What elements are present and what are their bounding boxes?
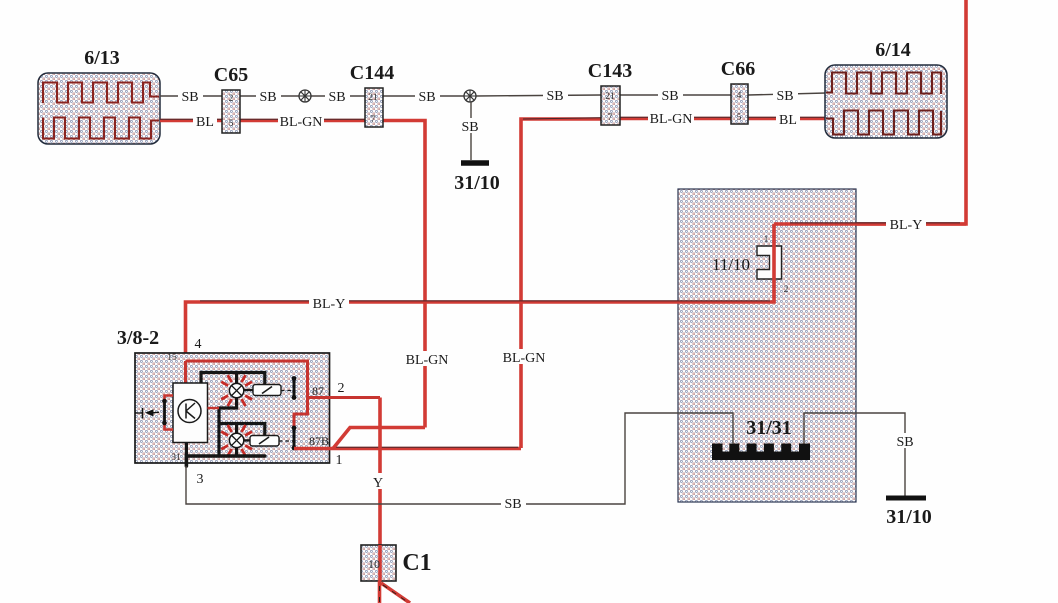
- wire SB C144 to splice2: [383, 95, 464, 97]
- svg-text:BL-GN: BL-GN: [406, 353, 449, 368]
- black link over lamp 1: [201, 373, 265, 385]
- svg-text:11/10: 11/10: [712, 255, 750, 274]
- wire SB splice2 down to ground: [470, 102, 472, 160]
- wire red to contact 87b branch: [294, 398, 308, 429]
- wire SB C143 to C66: [620, 94, 731, 96]
- label SB: [773, 87, 798, 102]
- timer block bottom stub: [185, 443, 188, 457]
- ground 31/10 top: [461, 160, 489, 166]
- svg-text:3: 3: [197, 472, 204, 487]
- wire BL-GN C65 to C144: [240, 119, 365, 123]
- timer symbol circle: [178, 400, 201, 423]
- wire comb to right ground: [804, 413, 905, 496]
- 6/13 heating element top loop: [43, 83, 159, 104]
- dashed link E2 to contact 87B: [279, 440, 293, 442]
- svg-text:C143: C143: [588, 60, 632, 82]
- svg-text:4: 4: [737, 91, 742, 101]
- wire SB C66 to 6/14: [748, 93, 826, 95]
- wire Y from pin 2 down to C1: [378, 398, 382, 546]
- label SB: [325, 88, 350, 103]
- svg-text:3/8-2: 3/8-2: [117, 327, 159, 349]
- svg-text:2: 2: [338, 381, 345, 396]
- wire SB pin 3 to module box: [186, 413, 678, 504]
- wire BL-Y feed from top right: [774, 0, 966, 224]
- svg-text:87: 87: [312, 384, 324, 398]
- contact 87: [292, 376, 297, 400]
- svg-text:SB: SB: [418, 90, 435, 105]
- contact 87B: [292, 426, 297, 451]
- label BL-GN: [648, 110, 694, 125]
- dashed link E1 to contact 87: [281, 390, 293, 392]
- black link over lamp 2: [219, 424, 265, 436]
- indicator lamp L2: [221, 425, 252, 456]
- wire BL 6/13 to C65: [160, 119, 222, 123]
- svg-text:BL-GN: BL-GN: [650, 112, 693, 127]
- svg-text:Y: Y: [373, 476, 383, 491]
- connector C144: [365, 88, 383, 127]
- splice joint symbol 1: [299, 90, 311, 102]
- svg-text:6/13: 6/13: [84, 47, 120, 69]
- svg-text:87B: 87B: [309, 434, 329, 448]
- svg-text:21: 21: [605, 92, 615, 102]
- svg-text:C66: C66: [721, 58, 755, 80]
- wire pin 4 down to timer block: [184, 361, 187, 383]
- svg-text:10: 10: [368, 557, 380, 571]
- wire BL-Y inside box to pin 1 of 11/10: [774, 222, 966, 226]
- indicator lamp L1: [221, 375, 252, 406]
- red link timer to lamp bus: [208, 407, 220, 409]
- label SB: [458, 118, 483, 133]
- label BL-GN: [278, 113, 324, 128]
- label SB: [893, 433, 918, 448]
- connector C66: [731, 84, 748, 124]
- label Y: [371, 473, 386, 489]
- label SB: [543, 87, 568, 102]
- heated seat element 6/13: [38, 73, 160, 144]
- relay unit 3/8-2 box: [135, 353, 330, 463]
- label SB: [256, 88, 281, 103]
- svg-text:31: 31: [171, 453, 181, 463]
- wire through 11/10: [772, 246, 776, 279]
- svg-text:C144: C144: [350, 62, 394, 84]
- svg-text:SB: SB: [661, 89, 678, 104]
- svg-text:2: 2: [229, 94, 234, 104]
- label SB: [501, 495, 526, 510]
- wire SB C65 to splice: [240, 95, 299, 97]
- svg-text:SB: SB: [504, 497, 521, 512]
- label BL: [776, 111, 800, 126]
- wire BL-GN C143 to C66: [620, 117, 731, 121]
- svg-text:6/14: 6/14: [875, 39, 911, 61]
- svg-text:BL-Y: BL-Y: [890, 218, 923, 233]
- svg-text:1: 1: [336, 453, 343, 468]
- svg-text:7: 7: [608, 113, 613, 123]
- svg-text:4: 4: [195, 337, 202, 352]
- wire BL-Y pin 1 of 11/10 up: [772, 224, 776, 246]
- svg-text:31/10: 31/10: [886, 506, 932, 528]
- svg-text:5: 5: [737, 113, 742, 123]
- svg-text:SB: SB: [546, 89, 563, 104]
- svg-text:BL-GN: BL-GN: [503, 351, 546, 366]
- wire Y below C1: [378, 581, 382, 603]
- wire branch diagonal below C1: [381, 583, 410, 603]
- 6/14 heating element top loop: [826, 73, 941, 95]
- label BL-GN vertical 1: [404, 351, 450, 366]
- svg-text:SB: SB: [328, 90, 345, 105]
- connector C143: [601, 86, 620, 125]
- svg-text:C1: C1: [402, 550, 431, 576]
- svg-text:31/31: 31/31: [746, 417, 792, 439]
- wire SB into box to comb: [678, 413, 733, 444]
- svg-text:7: 7: [371, 115, 376, 125]
- svg-text:21: 21: [368, 93, 378, 103]
- label BL-Y: [309, 295, 349, 310]
- label SB: [658, 87, 683, 102]
- connector bracket 11/10: [757, 246, 782, 279]
- svg-text:31/10: 31/10: [454, 172, 500, 194]
- label SB: [415, 88, 440, 103]
- ground rail 31/31 comb: [712, 444, 810, 461]
- manual actuator arrow symbol: [135, 408, 159, 419]
- splice joint symbol 2: [464, 90, 476, 102]
- wire BL-Y pin 2 of 11/10 down to relay pin 4 run: [186, 279, 775, 361]
- left bypass contact of timer: [165, 396, 174, 401]
- label SB: [178, 88, 203, 103]
- svg-text:1: 1: [764, 235, 769, 245]
- lamp L2 lower stub: [235, 448, 238, 456]
- svg-text:BL: BL: [779, 113, 797, 128]
- svg-text:BL: BL: [196, 115, 214, 130]
- wire BL-GN corner to C143: [521, 119, 601, 448]
- label BL-Y: [886, 216, 926, 231]
- svg-text:SB: SB: [461, 120, 478, 135]
- svg-text:5: 5: [229, 119, 234, 129]
- lamp L1 lower wire to rail: [219, 398, 237, 456]
- thermal element E1: [253, 385, 281, 396]
- connector C65: [222, 90, 240, 133]
- svg-text:BL-Y: BL-Y: [313, 297, 346, 312]
- control module box (11/10 and 31/31): [678, 189, 856, 502]
- wire SB splice to C144: [311, 95, 365, 97]
- 6/13 heating element bottom loop: [43, 118, 159, 139]
- wire SB 6/13 to C65: [160, 95, 222, 97]
- wire BL C66 to 6/14: [748, 117, 826, 121]
- svg-text:2: 2: [784, 285, 789, 295]
- svg-text:BL-GN: BL-GN: [280, 115, 323, 130]
- thermal element E2: [250, 436, 279, 447]
- svg-text:C65: C65: [214, 64, 248, 86]
- link lamp2 to E2: [244, 439, 250, 441]
- 6/14 heating element bottom loop: [826, 111, 941, 135]
- lamp L1 stub: [235, 373, 238, 384]
- heated seat element 6/14: [825, 65, 947, 138]
- svg-text:SB: SB: [259, 90, 276, 105]
- svg-text:15: 15: [167, 353, 177, 363]
- link lamp1 to E1: [244, 389, 253, 391]
- diagonal BL-GN1 join to 87B wire: [333, 428, 425, 449]
- label BL: [193, 113, 217, 128]
- svg-text:SB: SB: [776, 89, 793, 104]
- wire SB splice2 to C143: [476, 95, 601, 96]
- connector C1: [361, 545, 396, 581]
- wire Y through C1: [378, 545, 382, 581]
- svg-text:SB: SB: [181, 90, 198, 105]
- lamp L2 stub: [235, 424, 238, 434]
- bottom rail to pin 31: [186, 456, 264, 466]
- label BL-GN vertical 2: [501, 349, 547, 364]
- ground 31/10 right: [886, 496, 926, 501]
- timer block U: [173, 383, 208, 443]
- svg-text:SB: SB: [896, 435, 913, 450]
- wire BL-GN C144 to corner, down as vertical 1: [383, 121, 425, 428]
- wire red internal bus from pin 4: [186, 361, 381, 398]
- wire 87B out: [294, 447, 521, 451]
